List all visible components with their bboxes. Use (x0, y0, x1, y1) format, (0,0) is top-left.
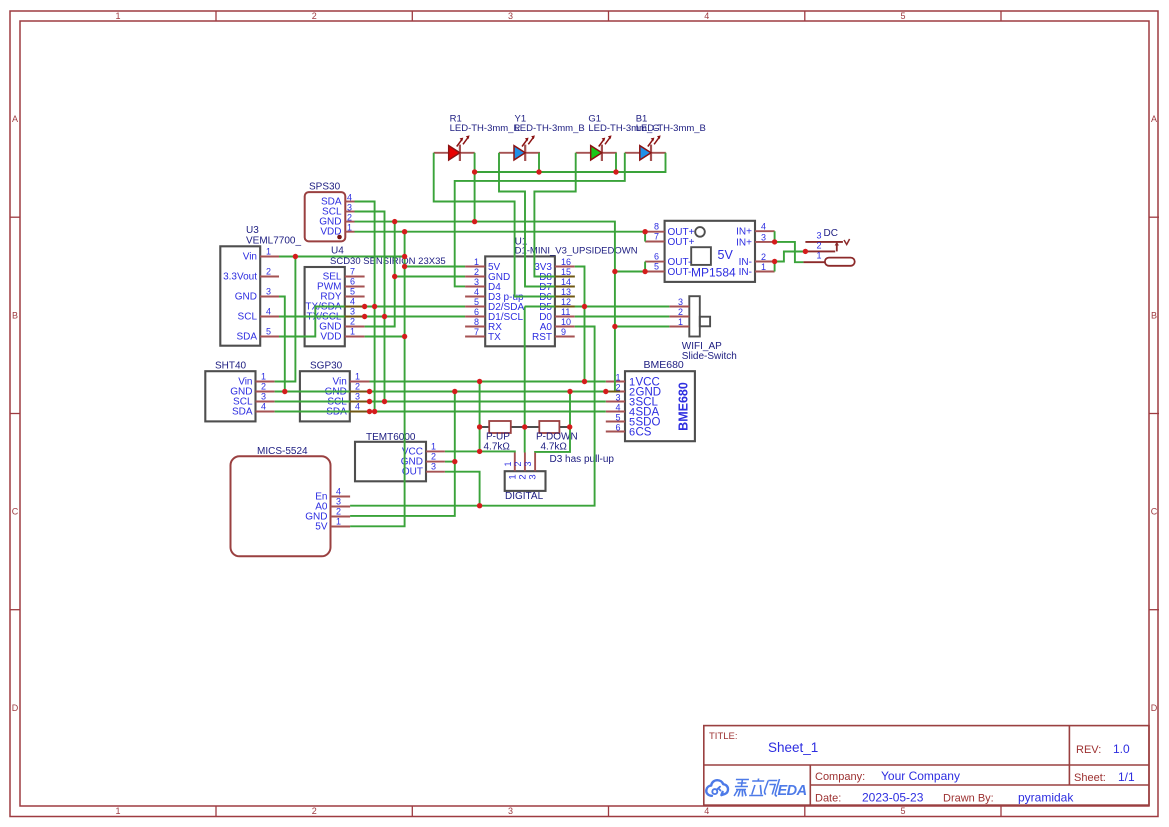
svg-text:3: 3 (761, 232, 766, 242)
EasyEDA cloud logo (706, 779, 806, 800)
svg-text:A: A (1151, 114, 1157, 124)
svg-text:1: 1 (678, 317, 683, 327)
junction dots (282, 169, 808, 508)
svg-text:4: 4 (336, 487, 341, 497)
svg-text:Slide-Switch: Slide-Switch (682, 351, 737, 362)
svg-text:EDA: EDA (778, 783, 807, 799)
wire net SDA sensors row (275, 411, 606, 413)
svg-text:TX: TX (488, 332, 501, 343)
svg-text:D: D (1151, 703, 1158, 713)
svg-text:8: 8 (474, 317, 479, 327)
svg-text:SPS30: SPS30 (309, 182, 341, 193)
svg-text:1: 1 (615, 373, 620, 383)
svg-text:8: 8 (654, 222, 659, 232)
sensor SHT40 (205, 361, 274, 422)
svg-text:1/1: 1/1 (1118, 770, 1135, 784)
svg-text:SCL: SCL (238, 312, 258, 323)
svg-text:Your Company: Your Company (881, 769, 960, 783)
svg-text:A: A (12, 114, 18, 124)
wire net GND to switch pin1 (615, 326, 670, 328)
wire net 5V to U3 Vin / SHT40 Vin (279, 256, 405, 258)
svg-text:4: 4 (474, 287, 479, 297)
svg-text:REV:: REV: (1076, 744, 1101, 756)
wire net D5 vertical to DIGITAL pin2 (524, 307, 526, 453)
wire net GND down branch to TEMT/MICS (350, 392, 455, 516)
wire net GND sensors row (275, 391, 606, 393)
svg-text:Vin: Vin (243, 252, 257, 263)
svg-text:3: 3 (350, 307, 355, 317)
wire net D7 (LED Y1 to U1 D7) (499, 153, 575, 287)
wire net 5V main run (355, 231, 646, 233)
svg-text:3: 3 (508, 806, 513, 816)
svg-text:6: 6 (629, 427, 635, 439)
svg-text:4: 4 (704, 806, 709, 816)
wire net D6 (LED R1 to U1 D6) (434, 153, 575, 297)
svg-text:3.3Vout: 3.3Vout (223, 272, 257, 283)
svg-text:2: 2 (312, 806, 317, 816)
svg-text:6: 6 (350, 277, 355, 287)
resistor P-UP 4.7k (480, 421, 525, 453)
svg-text:1: 1 (817, 251, 822, 261)
svg-text:5: 5 (615, 413, 620, 423)
svg-text:1: 1 (261, 372, 266, 382)
svg-text:SDA: SDA (236, 332, 257, 343)
sensor TEMT6000 (355, 432, 445, 481)
svg-text:15: 15 (561, 267, 571, 277)
sensor SGP30 (300, 361, 370, 422)
svg-text:3: 3 (508, 11, 513, 21)
svg-text:4: 4 (261, 402, 266, 412)
svg-text:D1-MINI_V3_UPSIDEDOWN: D1-MINI_V3_UPSIDEDOWN (515, 246, 638, 257)
svg-text:RST: RST (532, 332, 552, 343)
svg-text:SHT40: SHT40 (215, 361, 247, 372)
svg-text:4: 4 (615, 403, 620, 413)
svg-text:LED-TH-3mm_R: LED-TH-3mm_R (450, 123, 521, 134)
svg-text:4: 4 (266, 307, 271, 317)
svg-text:Sheet:: Sheet: (1074, 772, 1106, 784)
svg-text:1: 1 (761, 262, 766, 272)
svg-text:5: 5 (474, 297, 479, 307)
svg-text:7: 7 (350, 267, 355, 277)
svg-text:Sheet_1: Sheet_1 (768, 740, 818, 755)
svg-text:6: 6 (654, 252, 659, 262)
wire net GND to MP1584 OUT- (615, 271, 645, 273)
svg-text:1: 1 (431, 441, 436, 451)
wire net SDA U3 jog to U1 (279, 307, 465, 337)
frame column numbers (115, 11, 905, 816)
svg-text:1: 1 (474, 257, 479, 267)
LED B1 LED-TH-3mm_B (625, 114, 706, 162)
IC U4 SCD30 SENSIRION (305, 246, 446, 347)
svg-text:2: 2 (474, 267, 479, 277)
svg-text:3: 3 (678, 297, 683, 307)
svg-text:5: 5 (266, 327, 271, 337)
svg-text:4.7kΩ: 4.7kΩ (541, 442, 568, 453)
svg-text:C: C (12, 507, 19, 517)
svg-text:3: 3 (431, 462, 436, 472)
svg-text:2: 2 (336, 507, 341, 517)
slide switch WIFI_AP (669, 296, 736, 362)
svg-text:Company:: Company: (815, 771, 865, 783)
MCU module U1 D1-MINI_V3_UPSIDEDOWN (465, 237, 638, 347)
frame row letters (12, 114, 1158, 713)
svg-text:1: 1 (115, 11, 120, 21)
svg-text:1: 1 (503, 461, 513, 466)
IC U3 VEML7700 (220, 225, 301, 346)
overlapped pin stubs (wire over pin) (345, 277, 620, 412)
svg-text:2023-05-23: 2023-05-23 (862, 791, 924, 805)
svg-text:1: 1 (336, 517, 341, 527)
sensor MICS-5524 (231, 446, 351, 556)
svg-text:6: 6 (474, 307, 479, 317)
svg-text:3: 3 (817, 231, 822, 241)
svg-text:2: 2 (312, 11, 317, 21)
wire net D5 row to switch pin3 (525, 306, 670, 308)
wire net SCL (SPS30 SCL branch) (355, 212, 385, 402)
svg-text:D3 has pull-up: D3 has pull-up (550, 454, 615, 465)
DC barrel jack connector (803, 228, 854, 266)
svg-text:pyramidak: pyramidak (1018, 791, 1074, 805)
wire TEMT OUT to A0 row (445, 472, 480, 506)
svg-text:9: 9 (561, 327, 566, 337)
wire net SDA (SPS30 SDA branch) (355, 202, 375, 412)
svg-text:2: 2 (266, 267, 271, 277)
wire MP1584 IN+ to DC pin1 (774, 231, 776, 242)
svg-text:1: 1 (355, 372, 360, 382)
svg-text:2: 2 (261, 382, 266, 392)
svg-text:3: 3 (336, 497, 341, 507)
svg-text:4: 4 (761, 222, 766, 232)
svg-text:MICS-5524: MICS-5524 (257, 446, 308, 457)
svg-text:3: 3 (615, 393, 620, 403)
svg-text:B: B (12, 310, 18, 320)
svg-text:3: 3 (523, 461, 533, 466)
svg-text:DC: DC (824, 228, 838, 239)
wire net 5V to U4 VDD (365, 336, 405, 338)
svg-text:IN+: IN+ (736, 227, 752, 238)
svg-text:2: 2 (347, 213, 352, 223)
svg-text:LED-TH-3mm_B: LED-TH-3mm_B (515, 123, 585, 134)
svg-text:1.0: 1.0 (1113, 742, 1130, 756)
svg-text:3: 3 (528, 474, 539, 479)
svg-text:3: 3 (261, 392, 266, 402)
svg-text:2: 2 (678, 307, 683, 317)
wire net SCL U3 to U1 (279, 316, 465, 318)
wire net GND U3 branch (279, 297, 285, 392)
LED R1 LED-TH-3mm_R (434, 114, 521, 162)
svg-text:2: 2 (761, 252, 766, 262)
wire net GND branch to U4/U1 (365, 222, 395, 327)
title block (704, 726, 1149, 806)
svg-text:OUT-: OUT- (668, 267, 692, 278)
svg-text:C: C (1151, 507, 1158, 517)
svg-text:7: 7 (474, 327, 479, 337)
svg-text:4: 4 (350, 297, 355, 307)
svg-text:2: 2 (350, 317, 355, 327)
svg-text:3: 3 (266, 287, 271, 297)
svg-text:3: 3 (347, 203, 352, 213)
connector DIGITAL (503, 453, 546, 503)
title block texts (709, 731, 1135, 805)
svg-text:14: 14 (561, 277, 571, 287)
svg-text:5: 5 (900, 11, 905, 21)
svg-text:12: 12 (561, 297, 571, 307)
svg-text:BME680: BME680 (644, 359, 684, 371)
svg-text:SCD30 SENSIRION 23X35: SCD30 SENSIRION 23X35 (330, 256, 446, 267)
sensor module SPS30 (305, 182, 355, 242)
svg-text:6: 6 (615, 423, 620, 433)
svg-text:13: 13 (561, 287, 571, 297)
LED Y1 LED-TH-3mm_B (499, 114, 585, 162)
svg-text:BME680: BME680 (677, 382, 691, 431)
svg-text:5: 5 (350, 287, 355, 297)
wire LED cathode bus (474, 153, 476, 222)
svg-text:1: 1 (347, 223, 352, 233)
svg-text:1: 1 (115, 806, 120, 816)
svg-text:2: 2 (513, 461, 523, 466)
sensor BME680 (606, 359, 695, 441)
wire net 3V3 from U1 (575, 267, 585, 382)
svg-text:Drawn By:: Drawn By: (943, 793, 994, 805)
svg-text:MP1584: MP1584 (691, 266, 736, 280)
svg-text:5V: 5V (718, 248, 734, 262)
wire net D0 to switch pin2 (575, 316, 670, 318)
wire net SCL sensors row (275, 401, 606, 403)
svg-text:U4: U4 (331, 246, 344, 257)
svg-text:5V: 5V (315, 522, 328, 533)
power module MP1584 5V (645, 221, 775, 282)
svg-text:10: 10 (561, 317, 571, 327)
svg-text:5: 5 (900, 806, 905, 816)
wire MP1584 IN- to DC pin2 (774, 262, 776, 272)
svg-text:2: 2 (817, 241, 822, 251)
svg-text:TEMT6000: TEMT6000 (366, 432, 416, 443)
svg-text:GND: GND (235, 292, 257, 303)
svg-text:1: 1 (266, 247, 271, 257)
svg-text:2: 2 (355, 382, 360, 392)
svg-text:DIGITAL: DIGITAL (505, 491, 544, 502)
svg-text:B: B (1151, 310, 1157, 320)
wire net D4 (LED B1 to U1 D4) (455, 153, 625, 287)
wire net D8 (LED G1 to U1 D8) (534, 153, 575, 277)
svg-text:11: 11 (561, 307, 570, 317)
svg-text:CS: CS (636, 427, 652, 439)
svg-text:SDA: SDA (232, 407, 253, 418)
svg-text:1: 1 (350, 327, 355, 337)
wire net GND branch to P-DOWN/DIGITAL pin3 (535, 392, 570, 453)
wire TEMT VCC row to DIGITAL pin1 (445, 451, 515, 452)
svg-text:VDD: VDD (320, 332, 341, 343)
wire net 5V vertical branch (350, 232, 405, 527)
wire net 5V to U1 (405, 266, 466, 268)
svg-text:2: 2 (431, 452, 436, 462)
svg-text:7: 7 (654, 232, 659, 242)
svg-text:SGP30: SGP30 (310, 361, 343, 372)
wire net 3V3 sensors VCC row (370, 381, 606, 383)
resistor P-DOWN 4.7k (525, 421, 578, 453)
svg-text:IN+: IN+ (736, 237, 752, 248)
wire net GND main run (355, 222, 615, 392)
svg-text:VEML7700_: VEML7700_ (246, 236, 301, 247)
svg-text:4: 4 (355, 402, 360, 412)
svg-text:OUT+: OUT+ (668, 237, 695, 248)
svg-text:IN-: IN- (739, 267, 752, 278)
svg-text:4: 4 (347, 193, 352, 203)
svg-text:3: 3 (355, 392, 360, 402)
svg-text:D: D (12, 703, 19, 713)
svg-text:16: 16 (561, 257, 571, 267)
wire net A0 run (350, 327, 594, 506)
svg-text:5: 5 (654, 262, 659, 272)
svg-text:TITLE:: TITLE: (709, 731, 738, 742)
svg-text:4: 4 (704, 11, 709, 21)
svg-text:3: 3 (474, 277, 479, 287)
LED G1 LED-TH-3mm_G (576, 114, 660, 162)
svg-text:LED-TH-3mm_B: LED-TH-3mm_B (636, 123, 706, 134)
svg-text:U3: U3 (246, 225, 259, 236)
svg-text:Date:: Date: (815, 793, 841, 805)
